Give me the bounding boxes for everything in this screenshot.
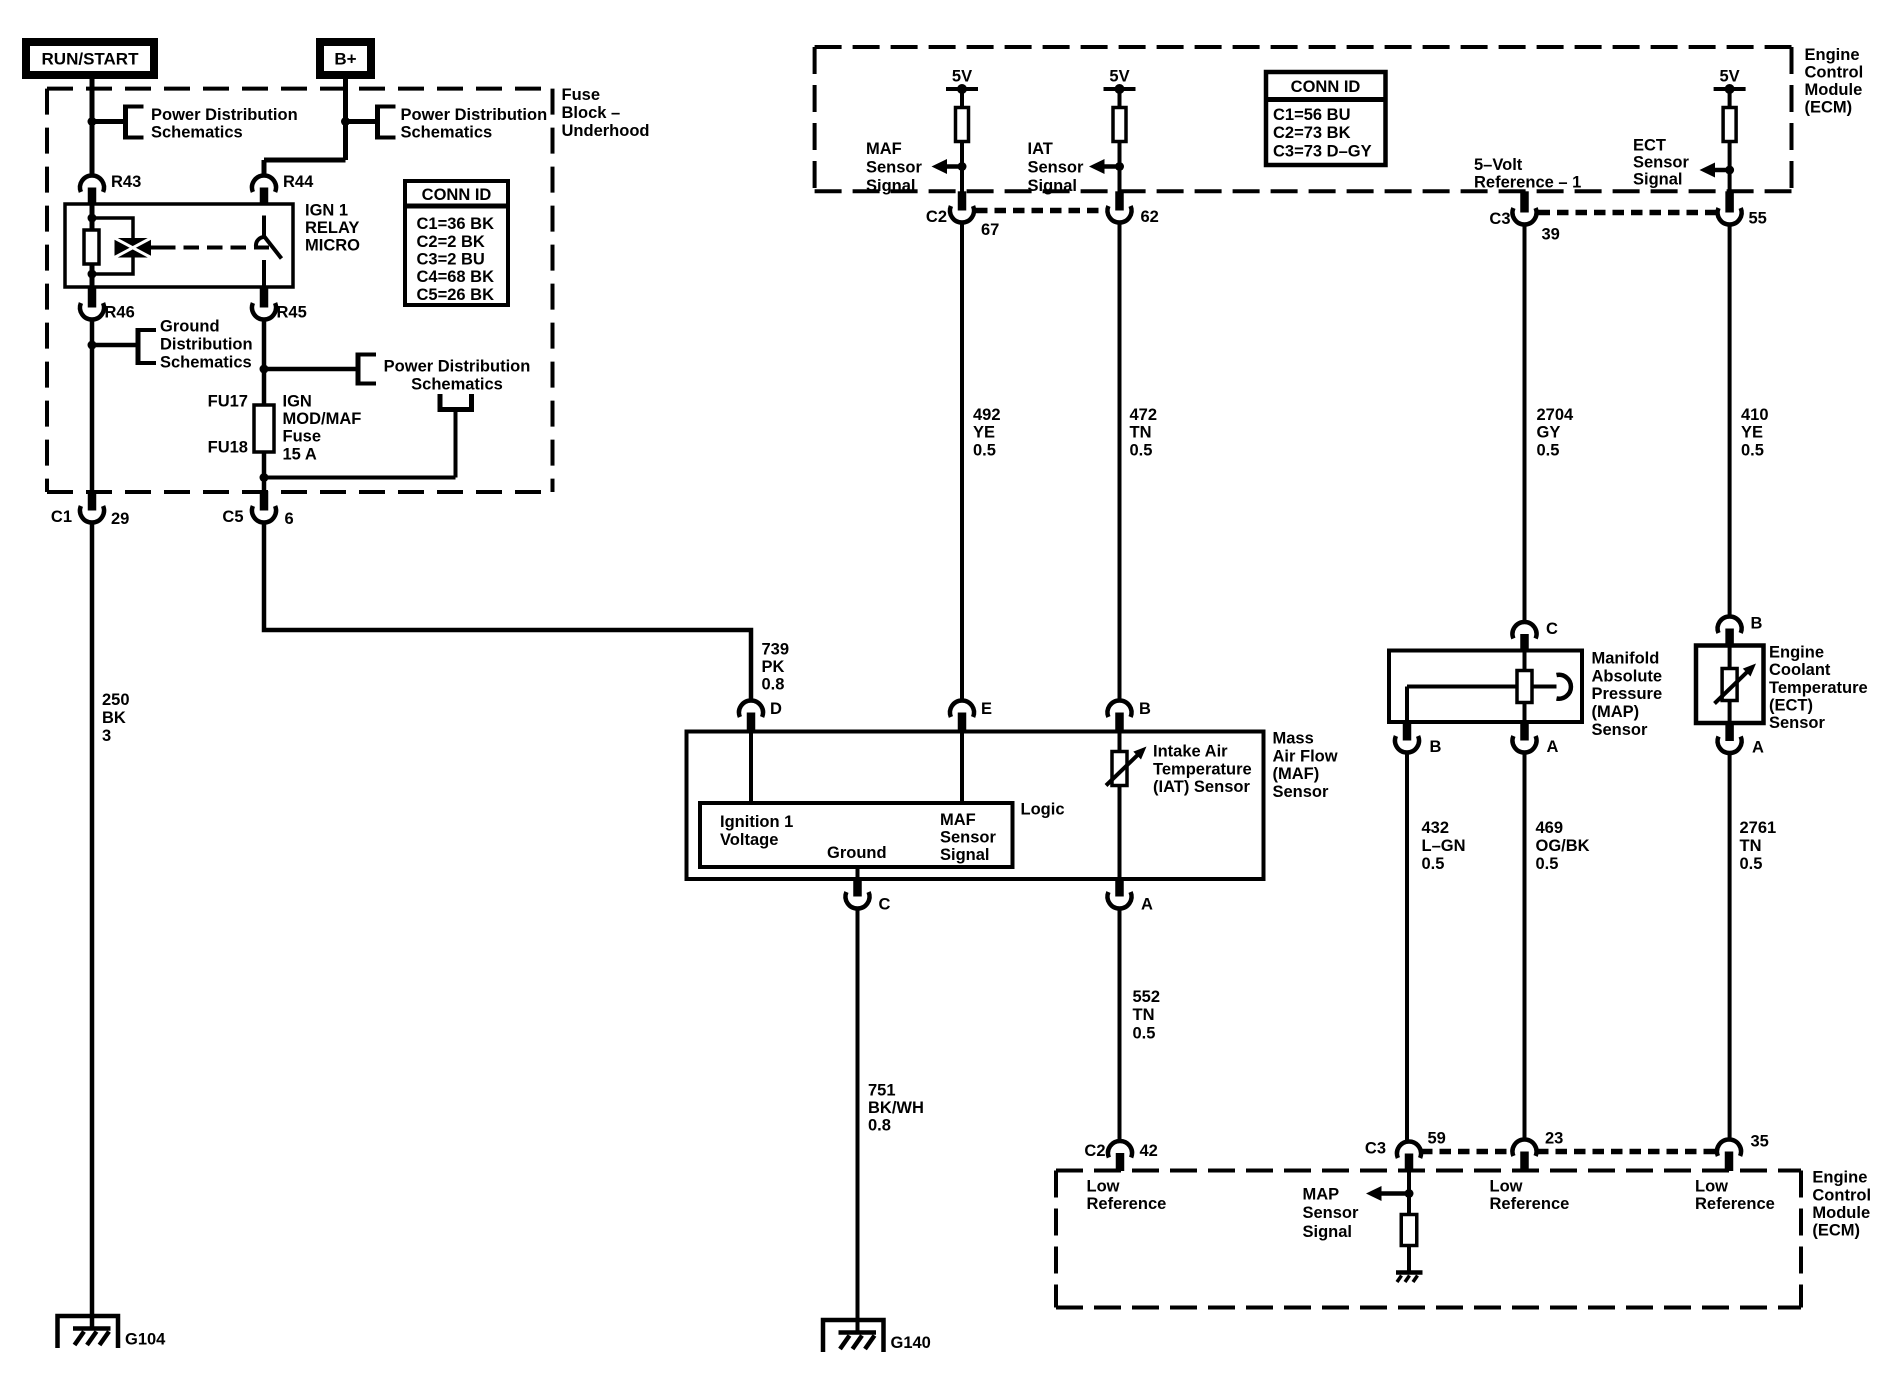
label 751 BK/WH 0.8 [868, 1082, 924, 1135]
svg-text:Sensor: Sensor [940, 829, 997, 847]
fuse FU17/FU18 IGN MOD/MAF Fuse 15 A [208, 393, 362, 464]
svg-text:Signal: Signal [1303, 1223, 1353, 1241]
ground G140 [823, 1320, 931, 1352]
svg-text:C1=56 BU: C1=56 BU [1273, 106, 1351, 124]
connector pin 23 [1513, 1130, 1564, 1172]
svg-text:Schematics: Schematics [151, 124, 243, 142]
svg-text:Power Distribution: Power Distribution [401, 106, 548, 124]
ECT thermistor [1715, 646, 1757, 724]
svg-text:Reference: Reference [1087, 1195, 1167, 1213]
connector dotted link C3-55 [1539, 210, 1717, 216]
svg-text:35: 35 [1751, 1133, 1769, 1151]
MAP pressure port [1532, 675, 1571, 699]
connector C1 pin 29 [51, 491, 129, 528]
svg-text:BK: BK [102, 709, 126, 727]
svg-text:(ECM): (ECM) [1812, 1222, 1860, 1240]
svg-text:(ECM): (ECM) [1805, 99, 1853, 117]
svg-text:B: B [1139, 700, 1151, 718]
svg-text:Signal: Signal [866, 177, 916, 195]
svg-text:Sensor: Sensor [1633, 153, 1690, 171]
connector A (MAP) [1513, 722, 1559, 756]
svg-text:C: C [879, 896, 891, 914]
wire 739 PK 0.8 from C5 to MAF D [264, 523, 751, 702]
svg-text:FU17: FU17 [208, 393, 248, 411]
wire to off-page reference [92, 119, 126, 124]
CONN ID table (ECM) [1266, 72, 1386, 165]
connector B (ECT) [1718, 615, 1763, 647]
off-page reference Power Distribution Schematics (B+) [378, 105, 548, 142]
label 469 OG/BK 0.5 [1536, 819, 1590, 873]
svg-text:Reference: Reference [1490, 1195, 1570, 1213]
label Fuse Block - Underhood [562, 86, 650, 140]
wire 432 L-GN 0.5 [1405, 753, 1409, 1143]
svg-text:Engine: Engine [1812, 1169, 1867, 1187]
svg-text:2704: 2704 [1537, 406, 1575, 424]
svg-text:TN: TN [1740, 837, 1762, 855]
connector R46 [80, 287, 135, 322]
svg-text:C: C [1546, 620, 1558, 638]
svg-text:Schematics: Schematics [401, 124, 493, 142]
svg-text:C5: C5 [222, 508, 243, 526]
svg-text:5V: 5V [952, 68, 972, 86]
svg-text:0.5: 0.5 [1130, 441, 1153, 459]
svg-text:5V: 5V [1720, 68, 1740, 86]
svg-text:Low: Low [1087, 1178, 1120, 1196]
svg-text:492: 492 [973, 406, 1001, 424]
Engine Control Module (ECM) dashed box top [815, 47, 1792, 191]
connector A (ECT) [1718, 723, 1764, 757]
svg-text:TN: TN [1133, 1006, 1155, 1024]
svg-text:R45: R45 [277, 304, 307, 322]
svg-text:R44: R44 [283, 173, 314, 191]
svg-text:Ignition 1: Ignition 1 [720, 813, 793, 831]
label Low Reference (23) [1490, 1178, 1570, 1214]
svg-text:MAP: MAP [1303, 1186, 1340, 1204]
wire to off-page reference [346, 119, 378, 124]
label 2704 GY 0.5 [1537, 406, 1575, 459]
svg-text:D: D [770, 700, 782, 718]
connector C2 pin 67 [926, 191, 999, 239]
wire to lower power distribution reference [264, 410, 456, 478]
wire B through IAT [1118, 732, 1122, 880]
svg-text:0.5: 0.5 [973, 441, 996, 459]
label MAP Sensor Signal [1303, 1186, 1360, 1241]
internal ground (ECM) [1396, 1273, 1423, 1283]
svg-text:IAT: IAT [1028, 140, 1053, 158]
relay switch [256, 216, 282, 288]
label Intake Air Temperature (IAT) Sensor [1153, 743, 1252, 797]
svg-text:29: 29 [111, 510, 129, 528]
ECM internal resistor (MAP signal) [1401, 1215, 1417, 1246]
svg-text:Sensor: Sensor [1592, 721, 1649, 739]
svg-text:IGN 1: IGN 1 [305, 202, 348, 220]
svg-text:Control: Control [1812, 1186, 1871, 1204]
svg-text:62: 62 [1141, 208, 1159, 226]
svg-text:C4=68 BK: C4=68 BK [417, 268, 495, 286]
svg-text:55: 55 [1749, 210, 1767, 228]
svg-text:MAF: MAF [866, 140, 902, 158]
svg-text:Power Distribution: Power Distribution [384, 358, 531, 376]
svg-text:A: A [1141, 896, 1153, 914]
svg-text:42: 42 [1140, 1142, 1158, 1160]
Engine Control Module (ECM) dashed box bottom [1056, 1171, 1801, 1308]
wire 2704 GY 0.5 [1523, 225, 1527, 624]
connector A (MAF low ref) [1108, 879, 1153, 914]
svg-text:FU18: FU18 [208, 439, 248, 457]
svg-text:751: 751 [868, 1082, 896, 1100]
label IAT Sensor Signal [1028, 140, 1085, 195]
relay IGN 1 RELAY MICRO box [65, 204, 293, 287]
label 472 TN 0.5 [1130, 406, 1158, 459]
svg-text:Module: Module [1812, 1204, 1870, 1222]
svg-text:BK/WH: BK/WH [868, 1099, 924, 1117]
connector B (MAP) [1395, 722, 1442, 756]
svg-text:L–GN: L–GN [1422, 837, 1466, 855]
off-page reference Ground Distribution Schematics [138, 318, 253, 372]
svg-text:PK: PK [762, 658, 785, 676]
connector C3 pin 39 [1489, 191, 1559, 243]
wire B+ over to R44 [264, 160, 346, 176]
svg-text:CONN ID: CONN ID [422, 186, 492, 204]
junction [1405, 1189, 1414, 1198]
label MAF Sensor Signal [866, 140, 923, 195]
svg-text:Distribution: Distribution [160, 336, 253, 354]
label Manifold Absolute Pressure (MAP) Sensor [1592, 649, 1663, 739]
connector pin 55 [1718, 191, 1767, 227]
Manifold Absolute Pressure (MAP) Sensor box [1389, 651, 1582, 723]
svg-text:TN: TN [1130, 424, 1152, 442]
MAF logic box [700, 803, 1013, 867]
relay coil wire [90, 204, 95, 287]
junction [341, 117, 350, 126]
connector C (MAF ground) [846, 879, 891, 914]
svg-text:(IAT) Sensor: (IAT) Sensor [1153, 778, 1250, 796]
ECT sensor signal arrow [1700, 163, 1735, 178]
connector C5 pin 6 [222, 491, 293, 528]
label 739 PK 0.8 [762, 641, 790, 694]
MAP sensor signal node [1407, 1171, 1411, 1216]
wire D to logic [749, 732, 753, 804]
label ECT Sensor Signal [1633, 137, 1690, 189]
svg-text:Signal: Signal [940, 846, 990, 864]
svg-text:C5=26 BK: C5=26 BK [417, 286, 495, 304]
CONN ID table (fuse block) [405, 181, 508, 305]
svg-text:0.8: 0.8 [762, 676, 785, 694]
connector C3 pin 59 [1365, 1130, 1446, 1172]
svg-text:Sensor: Sensor [1303, 1204, 1360, 1222]
svg-text:Manifold: Manifold [1592, 649, 1660, 667]
wire 410 YE 0.5 [1728, 225, 1732, 618]
svg-text:Signal: Signal [1028, 177, 1078, 195]
junction [88, 341, 97, 350]
svg-text:472: 472 [1130, 406, 1158, 424]
svg-text:410: 410 [1741, 406, 1769, 424]
wire 751 BK/WH 0.8 [856, 909, 860, 1334]
label Engine Control Module (ECM) bottom [1812, 1169, 1871, 1240]
label Mass Air Flow (MAF) Sensor [1273, 730, 1338, 801]
svg-text:0.5: 0.5 [1537, 441, 1560, 459]
svg-text:(ECT): (ECT) [1769, 697, 1813, 715]
svg-text:39: 39 [1542, 226, 1560, 244]
svg-text:6: 6 [285, 510, 294, 528]
wire 552 TN 0.5 [1118, 909, 1122, 1143]
svg-text:C3=73 D–GY: C3=73 D–GY [1273, 142, 1372, 160]
5V reference IAT (terminal, resistor) [1104, 68, 1136, 193]
connector R43 [80, 173, 141, 205]
svg-text:Mass: Mass [1273, 730, 1314, 748]
svg-text:Signal: Signal [1633, 170, 1683, 188]
connector R44 [252, 173, 314, 205]
svg-text:0.8: 0.8 [868, 1117, 891, 1135]
svg-text:IGN: IGN [283, 393, 312, 411]
wire fuse to C5 [262, 452, 267, 491]
svg-text:Logic: Logic [1021, 801, 1065, 819]
svg-text:E: E [981, 700, 992, 718]
svg-text:Temperature: Temperature [1769, 679, 1868, 697]
svg-text:Engine: Engine [1769, 643, 1824, 661]
junction [88, 214, 97, 223]
svg-text:G140: G140 [891, 1334, 931, 1352]
svg-text:C3: C3 [1365, 1140, 1386, 1158]
svg-text:Ground: Ground [160, 318, 220, 336]
wire to power distribution reference [264, 367, 358, 372]
relay coil resistor [84, 230, 99, 264]
svg-text:CONN ID: CONN ID [1291, 78, 1361, 96]
junction [260, 473, 269, 482]
connector pin 35 [1717, 1133, 1769, 1172]
svg-text:Sensor: Sensor [1769, 714, 1826, 732]
svg-text:A: A [1752, 739, 1764, 757]
svg-text:YE: YE [973, 424, 995, 442]
labels inside logic box [720, 811, 997, 864]
wire 469 OG/BK 0.5 [1523, 753, 1527, 1141]
svg-text:(MAP): (MAP) [1592, 703, 1640, 721]
svg-text:Intake Air: Intake Air [1153, 743, 1228, 761]
wire resistor to internal ground [1407, 1246, 1411, 1273]
wire ground to C [856, 867, 860, 879]
svg-text:67: 67 [981, 221, 999, 239]
IAT sensor signal arrow [1089, 159, 1124, 174]
svg-text:2761: 2761 [1740, 819, 1777, 837]
svg-text:0.5: 0.5 [1422, 855, 1445, 873]
connector C2 pin 42 [1084, 1141, 1157, 1171]
svg-text:Sensor: Sensor [1028, 159, 1085, 177]
svg-text:Reference – 1: Reference – 1 [1474, 174, 1581, 192]
svg-text:3: 3 [102, 727, 111, 745]
Mass Air Flow (MAF) Sensor box [687, 732, 1264, 880]
label 492 YE 0.5 [973, 406, 1001, 459]
svg-text:Underhood: Underhood [562, 122, 650, 140]
svg-text:5V: 5V [1109, 68, 1129, 86]
svg-text:15 A: 15 A [283, 445, 317, 463]
svg-text:23: 23 [1545, 1130, 1563, 1148]
connector C (MAP) [1513, 620, 1559, 651]
connector R45 [252, 287, 307, 322]
connector D [739, 700, 782, 732]
svg-text:RUN/START: RUN/START [42, 50, 140, 69]
svg-text:MAF: MAF [940, 811, 976, 829]
svg-text:0.5: 0.5 [1133, 1024, 1156, 1042]
svg-text:Sensor: Sensor [866, 159, 923, 177]
connector dotted link 59-23 [1421, 1149, 1512, 1155]
wire 472 TN 0.5 [1118, 223, 1122, 702]
svg-text:Pressure: Pressure [1592, 685, 1663, 703]
off-page reference Power Distribution Schematics (mid) [358, 353, 530, 394]
svg-text:0.5: 0.5 [1536, 855, 1559, 873]
MAP sensor signal arrow [1366, 1186, 1409, 1201]
svg-text:0.5: 0.5 [1741, 441, 1764, 459]
svg-text:C1=36 BK: C1=36 BK [417, 215, 495, 233]
label Engine Control Module (ECM) top [1805, 46, 1864, 117]
5V reference MAF (terminal, resistor) [946, 68, 978, 193]
connector pin 62 [1108, 191, 1159, 226]
Engine Coolant Temperature (ECT) Sensor box [1696, 646, 1764, 724]
connector dotted link C2-62 [976, 208, 1106, 214]
connector dotted link 23-35 [1537, 1149, 1717, 1155]
svg-text:Engine: Engine [1805, 46, 1860, 64]
svg-text:C2: C2 [1084, 1142, 1105, 1160]
svg-text:469: 469 [1536, 819, 1564, 837]
power feed terminal B+ [320, 42, 371, 75]
svg-text:Fuse: Fuse [562, 86, 601, 104]
wire RUN/START to R43 [90, 75, 95, 176]
MAF sensor signal arrow [932, 159, 967, 174]
svg-text:B: B [1751, 615, 1763, 633]
svg-text:(MAF): (MAF) [1273, 765, 1320, 783]
svg-text:C1: C1 [51, 508, 72, 526]
svg-text:Ground: Ground [827, 844, 887, 862]
connector E [950, 700, 992, 732]
Fuse Block - Underhood dashed box [47, 89, 553, 492]
svg-text:R43: R43 [111, 173, 141, 191]
svg-text:250: 250 [102, 691, 130, 709]
svg-text:739: 739 [762, 641, 790, 659]
svg-text:C3: C3 [1489, 210, 1510, 228]
wire to ground distribution reference [92, 343, 138, 348]
label 432 L-GN 0.5 [1422, 819, 1466, 873]
svg-text:Voltage: Voltage [720, 831, 778, 849]
svg-text:ECT: ECT [1633, 137, 1666, 155]
svg-text:RELAY: RELAY [305, 219, 359, 237]
svg-text:5–Volt: 5–Volt [1474, 156, 1523, 174]
label 552 TN 0.5 [1133, 988, 1161, 1042]
svg-text:C3=2 BU: C3=2 BU [417, 251, 485, 269]
svg-text:Block –: Block – [562, 104, 621, 122]
svg-text:Sensor: Sensor [1273, 783, 1330, 801]
svg-text:Schematics: Schematics [160, 354, 252, 372]
wire B+ down [343, 75, 348, 160]
wire 492 YE 0.5 [960, 223, 964, 702]
label 410 YE 0.5 [1741, 406, 1769, 459]
junction [88, 117, 97, 126]
svg-text:R46: R46 [105, 304, 135, 322]
svg-text:YE: YE [1741, 424, 1763, 442]
svg-text:Air Flow: Air Flow [1273, 747, 1338, 765]
relay coil symbol (box with X) [115, 238, 152, 258]
svg-text:G104: G104 [125, 1331, 166, 1349]
svg-text:0.5: 0.5 [1740, 855, 1763, 873]
junction [88, 270, 97, 279]
MAP internal wire and resistor [1517, 651, 1532, 723]
svg-text:432: 432 [1422, 819, 1450, 837]
svg-text:Absolute: Absolute [1592, 667, 1663, 685]
svg-text:OG/BK: OG/BK [1536, 837, 1590, 855]
off-page reference Power Distribution Schematics (left) [126, 105, 298, 142]
label 2761 TN 0.5 [1740, 819, 1777, 873]
ground G104 [58, 1316, 167, 1349]
svg-text:Control: Control [1805, 63, 1864, 81]
label 5-Volt Reference - 1 [1474, 156, 1581, 192]
IAT thermistor [1106, 747, 1147, 786]
label Logic [1021, 801, 1065, 819]
wire coil to dashed link [151, 246, 160, 250]
svg-text:Module: Module [1805, 81, 1863, 99]
svg-text:B+: B+ [334, 50, 356, 69]
label 250 BK 3 [102, 691, 130, 745]
wire R46 to C1 [90, 320, 95, 506]
off-page reference bracket (up-open) [440, 394, 472, 410]
connector B (MAF) [1108, 700, 1152, 732]
svg-text:Reference: Reference [1695, 1195, 1775, 1213]
svg-text:Low: Low [1695, 1178, 1728, 1196]
svg-text:GY: GY [1537, 424, 1561, 442]
svg-text:MOD/MAF: MOD/MAF [283, 410, 362, 428]
svg-text:552: 552 [1133, 988, 1161, 1006]
wire 2761 TN 0.5 [1728, 753, 1732, 1141]
label Engine Coolant Temperature (ECT) Sensor [1769, 643, 1868, 732]
svg-text:C2=73 BK: C2=73 BK [1273, 124, 1351, 142]
svg-text:C2=2 BK: C2=2 BK [417, 233, 485, 251]
svg-text:Fuse: Fuse [283, 428, 322, 446]
svg-text:MICRO: MICRO [305, 237, 360, 255]
wire R45 to fuse [262, 320, 267, 407]
relay actuation dashed link [160, 246, 269, 250]
wire 250 BK 3 [90, 523, 95, 1330]
label IGN 1 RELAY MICRO [305, 202, 360, 255]
svg-text:Low: Low [1490, 1178, 1523, 1196]
svg-text:59: 59 [1428, 1130, 1446, 1148]
wire E to logic [960, 732, 964, 804]
svg-text:Temperature: Temperature [1153, 760, 1252, 778]
power feed terminal RUN/START [26, 42, 154, 75]
MAP internal wire to B [1407, 687, 1517, 723]
label Low Reference (35) [1695, 1178, 1775, 1214]
svg-text:Schematics: Schematics [411, 376, 503, 394]
svg-text:C2: C2 [926, 208, 947, 226]
svg-text:Coolant: Coolant [1769, 661, 1831, 679]
relay coil bypass bracket [92, 218, 133, 274]
svg-text:Power Distribution: Power Distribution [151, 106, 298, 124]
junction [260, 365, 269, 374]
svg-text:A: A [1547, 738, 1559, 756]
label Low Reference (C2 42) [1087, 1178, 1167, 1214]
svg-text:B: B [1430, 738, 1442, 756]
5V reference ECT (terminal, resistor) [1714, 68, 1746, 193]
